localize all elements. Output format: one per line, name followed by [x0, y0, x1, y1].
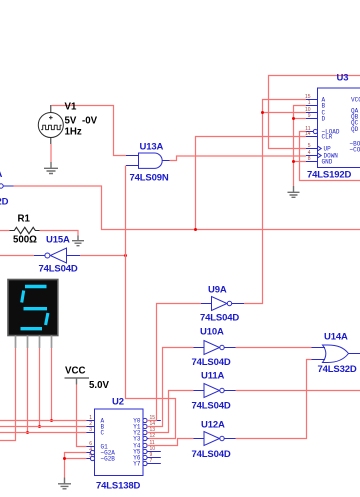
wire U3 pins B and D and GND to ground [294, 106, 307, 187]
wire 7-segment pin 1 to left edge [0, 348, 16, 441]
node junction GND pin branch [292, 160, 295, 163]
left cut-off gate output bubble [0, 184, 13, 188]
wire U10A output to U14A input 1 [236, 347, 312, 349]
7-segment digit 5 segment g [24, 307, 48, 310]
svg-text:UP: UP [324, 146, 332, 153]
wire U2 input B line [0, 426, 87, 428]
svg-text:U3: U3 [337, 73, 349, 84]
wire VCC to U2 G1 pin [77, 385, 87, 447]
wire U9A output to U3 pins A and C [244, 100, 306, 304]
wire U2 Y4 to U12A input [147, 439, 194, 446]
ground below U3 [288, 186, 300, 197]
svg-text:14: 14 [305, 131, 311, 137]
U3 pin names [322, 97, 360, 166]
power VCC symbol [65, 378, 90, 385]
node junction U15A input [124, 254, 127, 257]
svg-text:74LS04D: 74LS04D [39, 264, 78, 275]
7-segment digit 5 segment d [21, 327, 43, 330]
wire CLR branch up to U3 CLR pin [196, 137, 307, 230]
svg-text:D: D [322, 116, 326, 123]
svg-text:CLR: CLR [322, 134, 333, 141]
ground below V1 [44, 162, 58, 174]
svg-text:2D: 2D [0, 197, 9, 208]
svg-text:U15A: U15A [46, 235, 70, 246]
U2 pin numbers [89, 415, 92, 459]
node junction G2B branch [63, 457, 66, 460]
voltage source V1 [38, 105, 63, 162]
svg-text:8: 8 [308, 156, 311, 162]
wire left NOR gate output to CLR net [14, 186, 360, 230]
svg-text:C: C [101, 430, 105, 437]
wire U2 Y2 to U11A input [147, 391, 194, 433]
node junction CLR branch [194, 228, 197, 231]
svg-text:VCC: VCC [65, 366, 85, 377]
op-amp U15A inverter pointing left [34, 248, 80, 263]
svg-text:A: A [0, 169, 3, 180]
svg-text:QD: QD [351, 126, 359, 133]
svg-text:74LS04D: 74LS04D [200, 313, 239, 324]
7-segment digit 5 segment a [25, 285, 47, 288]
wire U2 G2A G2B to ground [65, 453, 87, 478]
wire 7-segment pin 3 to U2 B line [39, 348, 41, 427]
wire U2 Y1 to U10A input [147, 348, 194, 427]
svg-text:74LS04D: 74LS04D [192, 357, 231, 368]
wire V1 output to U13A input 1 [52, 106, 127, 156]
svg-text:1: 1 [308, 100, 311, 106]
inverter U12A [194, 432, 236, 446]
svg-text:74LS138D: 74LS138D [96, 481, 141, 492]
svg-text:74LS09N: 74LS09N [130, 173, 169, 184]
wire U3 UP pin net to right edge [269, 76, 360, 149]
svg-text:VCC: VCC [351, 97, 360, 104]
svg-text:GND: GND [322, 159, 333, 166]
node junction display pin 3 on B line [38, 425, 41, 428]
svg-text:U13A: U13A [140, 142, 164, 153]
7-segment digit 5 segment c [46, 313, 48, 325]
svg-text:500Ω: 500Ω [13, 235, 37, 246]
svg-text:5.0V: 5.0V [89, 380, 109, 391]
svg-text:U2: U2 [112, 397, 124, 408]
wire U12A output to U14A input 2 [236, 360, 312, 439]
svg-text:U14A: U14A [324, 332, 348, 343]
inverter U10A [194, 341, 236, 355]
svg-text:74LS04D: 74LS04D [192, 449, 231, 460]
ground below U2 G2 pins [58, 478, 71, 489]
wire U13A input 2 / U15A input / Y3 net [126, 166, 176, 439]
wire R1 right lead to ground [40, 231, 79, 236]
svg-text:U10A: U10A [200, 327, 224, 338]
svg-text:Y7: Y7 [133, 461, 141, 468]
wire 7-segment pin 4 to U2 A line [51, 348, 53, 421]
svg-text:U11A: U11A [201, 371, 224, 382]
svg-text:7: 7 [150, 458, 153, 464]
IC U3 74LS192D counter [306, 88, 360, 168]
wire U2 input C line [0, 432, 87, 434]
svg-text:R1: R1 [18, 214, 31, 225]
node junction display pin 4 on A line [50, 419, 53, 422]
wire U2 input A line [0, 420, 87, 422]
wire U15A input branch [80, 255, 126, 257]
svg-text:~G2B: ~G2B [101, 456, 116, 463]
svg-text:-0V: -0V [82, 116, 98, 127]
wire U13A output to U3 DOWN pin [170, 156, 307, 161]
svg-text:9: 9 [308, 113, 311, 119]
svg-text:5: 5 [89, 453, 92, 459]
inverter U9A [201, 297, 244, 311]
U2 pin names [101, 418, 116, 463]
svg-text:V1: V1 [65, 102, 77, 113]
7-segment digit 5 segment f [22, 291, 24, 303]
U3 pin numbers [305, 94, 311, 162]
wire U3 ~LOAD pin to right edge [300, 132, 360, 181]
7-segment display pins [16, 336, 52, 349]
AND gate U13A [126, 153, 170, 168]
svg-text:U9A: U9A [208, 285, 227, 296]
svg-text:~CO: ~CO [350, 147, 360, 154]
svg-text:5: 5 [308, 143, 311, 149]
svg-text:12: 12 [150, 433, 156, 439]
svg-text:1Hz: 1Hz [65, 127, 82, 138]
node junction pin C branch [261, 111, 264, 114]
7-segment display body [8, 280, 58, 336]
wire U15A output to left edge [0, 255, 34, 257]
IC U2 74LS138D decoder [87, 409, 161, 476]
svg-text:3: 3 [89, 427, 92, 433]
svg-text:Y3: Y3 [133, 436, 141, 443]
node junction pin D branch [292, 117, 295, 120]
svg-text:74LS04D: 74LS04D [192, 401, 231, 412]
svg-text:74LS32D: 74LS32D [318, 364, 357, 375]
wire 7-segment pin 2 to U2 C line [27, 348, 29, 433]
svg-text:U12A: U12A [201, 420, 225, 431]
svg-text:B: B [322, 103, 326, 110]
ground right of R1 [72, 236, 84, 246]
wire U11A output to right edge [236, 390, 360, 392]
svg-text:74LS192D: 74LS192D [307, 170, 352, 181]
OR gate U14A [312, 345, 360, 363]
wire U2 Y0 to U9A input [147, 304, 201, 421]
resistor R1 [10, 227, 40, 233]
inverter U11A [194, 384, 236, 398]
node junction display pin 2 on C line [26, 431, 29, 434]
wire R1 net left edge [0, 230, 10, 232]
svg-text:5V: 5V [65, 116, 77, 127]
